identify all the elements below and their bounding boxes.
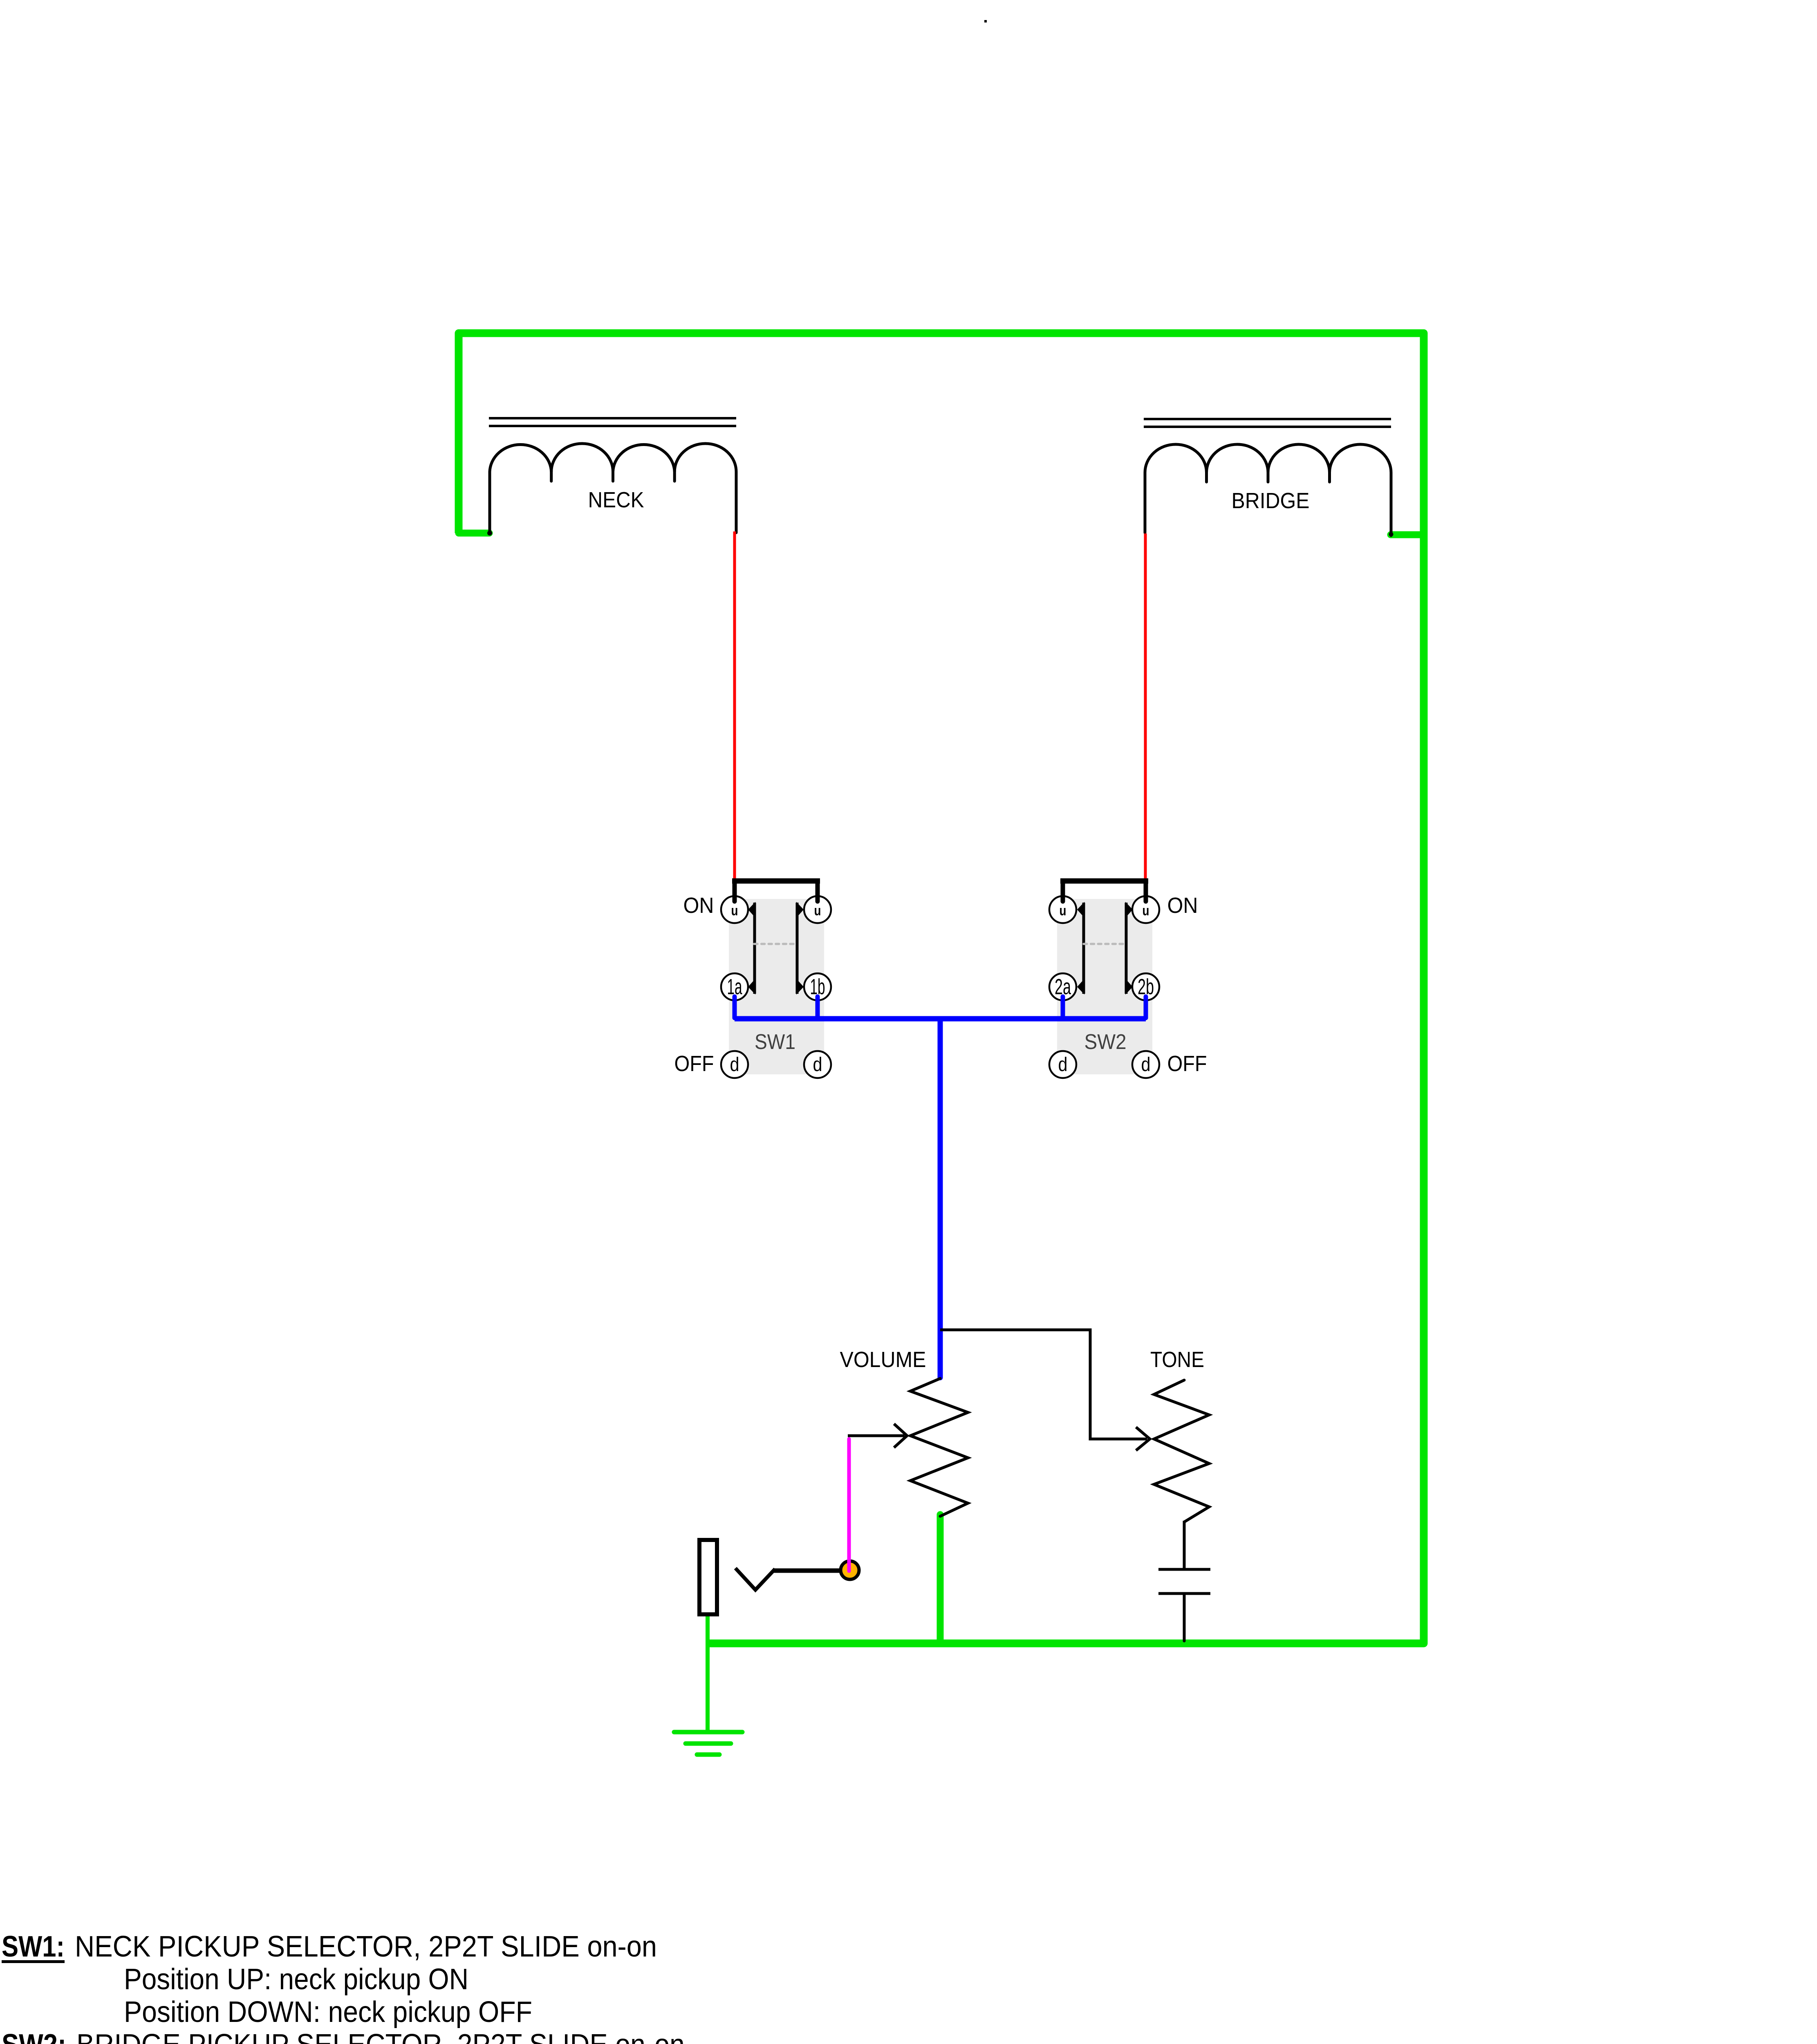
wire black SW2 top link — [1060, 879, 1148, 884]
svg-text:BRIDGE: BRIDGE — [1232, 489, 1310, 513]
svg-text:u: u — [814, 903, 821, 919]
pickup NECK magnet bar — [489, 418, 736, 426]
svg-text:NECK: NECK — [588, 488, 644, 512]
node bridge coil right terminal — [1389, 532, 1394, 537]
wire green volume to bus — [937, 1515, 944, 1643]
svg-text:1b: 1b — [810, 975, 825, 999]
wire magenta volume wiper to jack tip — [847, 1439, 851, 1571]
wire blue center down to volume — [938, 1019, 943, 1378]
svg-text:u: u — [731, 903, 738, 919]
switch SW2 body — [1057, 899, 1152, 1074]
wire black jack tip to connector — [773, 1569, 840, 1573]
node neck coil left terminal — [487, 531, 492, 536]
pickup BRIDGE coil L2 — [1145, 444, 1391, 536]
switch SW1 gang dashed link — [754, 943, 797, 945]
wire black SW1 top link — [732, 879, 820, 884]
pickup BRIDGE magnet bar — [1144, 419, 1391, 427]
svg-text:SW2:: SW2: — [2, 2028, 66, 2044]
svg-text:SW2: SW2 — [1084, 1030, 1127, 1054]
svg-text:ON: ON — [1167, 893, 1198, 918]
svg-text:SW1:: SW1: — [2, 1930, 65, 1963]
ground symbol — [674, 1732, 742, 1755]
wire ground frame green — [459, 333, 1424, 1643]
svg-text:NECK PICKUP SELECTOR, 2P2T SLI: NECK PICKUP SELECTOR, 2P2T SLIDE on-on — [75, 1930, 657, 1963]
switch SW2 gang dashed link — [1084, 943, 1126, 945]
wire black stubs into u terminals — [735, 882, 1146, 901]
pickup NECK coil L1 — [490, 444, 736, 534]
svg-text:VOLUME: VOLUME — [840, 1347, 926, 1372]
svg-text:OFF: OFF — [674, 1051, 714, 1076]
switch SW1 body — [729, 899, 824, 1074]
switch SW2 terminals — [1049, 896, 1159, 1078]
svg-text:d: d — [813, 1054, 822, 1076]
stray dot — [984, 20, 987, 22]
jack J1 tip contact — [735, 1568, 775, 1590]
switch SW1 pin labels — [731, 903, 821, 919]
switch SW2 pin labels — [1060, 903, 1149, 919]
potentiometer VOLUME wiper arrow — [848, 1434, 905, 1437]
wire red bridge hot — [1144, 533, 1147, 882]
jack J1 sleeve — [699, 1540, 717, 1614]
svg-text:OFF: OFF — [1167, 1051, 1207, 1076]
potentiometer TONE wiper arrow — [1136, 1427, 1150, 1450]
wire green stub to bridge pickup — [1391, 531, 1424, 538]
svg-text:2a: 2a — [1055, 975, 1071, 999]
svg-text:1a: 1a — [727, 975, 743, 999]
svg-text:u: u — [1060, 903, 1066, 919]
switch SW1 poles and contacts — [755, 903, 797, 994]
capacitor C1 lead bottom — [1183, 1595, 1186, 1641]
potentiometer VOLUME resistive element — [910, 1378, 968, 1516]
svg-text:Position UP: neck pickup ON: Position UP: neck pickup ON — [124, 1963, 468, 1996]
wire green stub to neck pickup — [459, 530, 489, 537]
switch SW1 terminals — [721, 896, 831, 1078]
pickup NECK coil valley ticks — [551, 471, 675, 481]
svg-text:TONE: TONE — [1150, 1347, 1204, 1372]
svg-text:2b: 2b — [1138, 975, 1154, 999]
note SW2 description — [2, 2028, 685, 2044]
node solder connector jack tip — [841, 1561, 859, 1580]
svg-text:SW1: SW1 — [755, 1030, 795, 1054]
wire green jack to ground — [706, 1615, 710, 1732]
svg-text:u: u — [1143, 903, 1149, 919]
pickup BRIDGE coil valley ticks — [1207, 472, 1330, 482]
wire red neck hot — [733, 531, 736, 882]
svg-text:d: d — [1058, 1054, 1068, 1076]
capacitor C1 — [1158, 1569, 1210, 1594]
svg-text:Position DOWN: neck pickup OFF: Position DOWN: neck pickup OFF — [124, 1996, 532, 2028]
svg-text:d: d — [1141, 1054, 1151, 1076]
wire blue bus horizontal — [735, 1016, 1146, 1022]
wire blue stubs to bus — [735, 997, 1146, 1018]
svg-text:ON: ON — [683, 893, 714, 918]
potentiometer TONE resistive element — [1154, 1380, 1209, 1522]
svg-text:d: d — [730, 1054, 739, 1076]
wire black junction to tone — [940, 1330, 1147, 1439]
switch SW2 poles and contacts — [1084, 903, 1126, 994]
note SW1 description — [2, 1930, 657, 2028]
svg-text:BRIDGE PICKUP SELECTOR, 2P2T S: BRIDGE PICKUP SELECTOR, 2P2T SLIDE on-on — [76, 2028, 685, 2044]
capacitor C1 lead top — [1183, 1521, 1186, 1568]
